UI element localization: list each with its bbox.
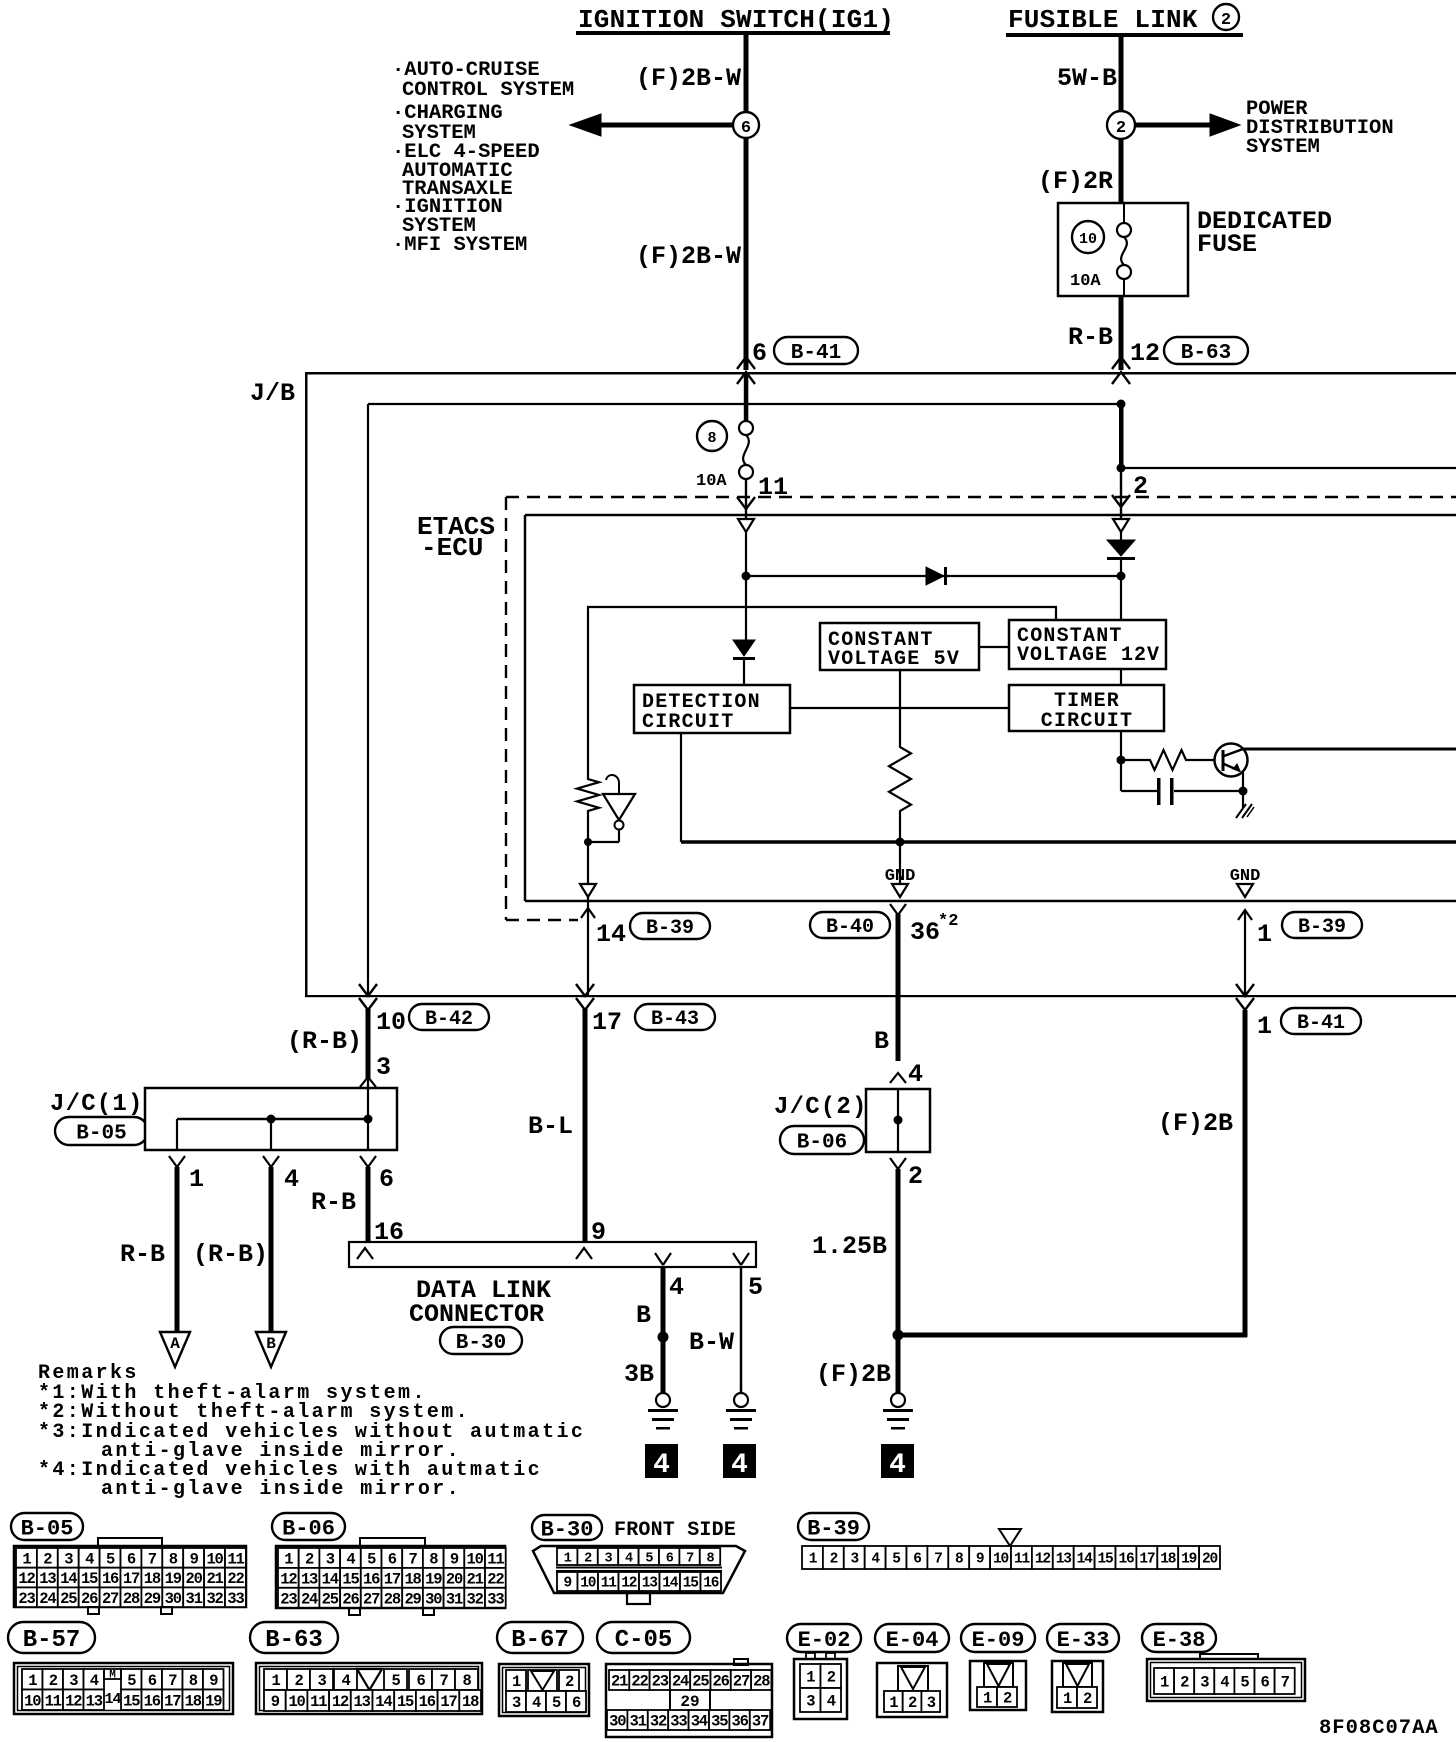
page ref 4 box2 <box>723 1444 756 1481</box>
svg-text:3: 3 <box>927 1694 936 1712</box>
svg-text:10: 10 <box>580 1576 596 1592</box>
J/C2 pin 2 exit <box>890 1158 923 1191</box>
ETACS-ECU dashed boundary <box>506 497 1456 920</box>
svg-text:B-57: B-57 <box>23 1627 81 1654</box>
svg-text:(R-B): (R-B) <box>287 1027 362 1056</box>
label 1 (B-39) <box>1257 920 1272 949</box>
svg-text:*2: *2 <box>938 912 958 931</box>
svg-text:7: 7 <box>408 1551 417 1569</box>
svg-text:22: 22 <box>487 1570 504 1588</box>
svg-text:5: 5 <box>367 1551 376 1569</box>
ground sym 1 <box>648 1393 678 1430</box>
J/C1 pin 6 exit <box>360 1156 394 1242</box>
pin 2 entry arrow <box>1112 472 1148 507</box>
label DATA LINK CONNECTOR <box>409 1276 551 1329</box>
svg-text:5: 5 <box>127 1672 136 1690</box>
crossing 17 (B-43) <box>576 984 594 1010</box>
svg-text:·MFI SYSTEM: ·MFI SYSTEM <box>392 234 527 257</box>
svg-text:14: 14 <box>375 1693 392 1711</box>
svg-text:4: 4 <box>85 1550 94 1568</box>
svg-text:10: 10 <box>206 1550 223 1568</box>
wire inside J/C1 <box>177 1088 368 1150</box>
svg-text:23: 23 <box>652 1673 669 1691</box>
svg-text:SYSTEM: SYSTEM <box>1246 136 1320 159</box>
wire: pin 1 B-39 exit <box>1244 910 1246 995</box>
svg-text:anti-glave inside mirror.: anti-glave inside mirror. <box>101 1478 461 1501</box>
svg-text:17: 17 <box>164 1692 181 1710</box>
wire: DLC pin4 to gnd <box>661 1267 666 1395</box>
svg-text:12: 12 <box>1035 1552 1051 1568</box>
svg-text:(F)2R: (F)2R <box>1038 167 1113 196</box>
svg-text:E-02: E-02 <box>798 1628 851 1653</box>
svg-text:20: 20 <box>1202 1552 1218 1568</box>
svg-text:24: 24 <box>39 1590 56 1608</box>
input triangle pin 11 <box>738 519 754 532</box>
node: J/C1 dots <box>267 1115 373 1124</box>
wire: R-B inside J/B vertical <box>367 404 369 995</box>
connector B-06 <box>272 1513 506 1615</box>
page ref 4 box1 <box>645 1444 678 1481</box>
svg-text:8: 8 <box>462 1672 471 1690</box>
svg-text:14: 14 <box>322 1570 339 1588</box>
svg-text:B-43: B-43 <box>651 1008 699 1031</box>
system list <box>392 59 574 257</box>
svg-text:5: 5 <box>645 1551 653 1566</box>
svg-text:CIRCUIT: CIRCUIT <box>642 711 734 734</box>
page ref 4 box3 <box>881 1444 914 1481</box>
svg-text:19: 19 <box>205 1692 222 1710</box>
svg-text:9: 9 <box>271 1693 280 1711</box>
svg-text:18: 18 <box>185 1692 202 1710</box>
svg-text:5: 5 <box>892 1552 900 1568</box>
node: junction at y468 <box>1117 464 1126 473</box>
wire: J/C2 down <box>896 1169 901 1335</box>
svg-text:5: 5 <box>552 1694 561 1712</box>
wire: R-B inside J/B horizontal <box>368 403 1121 405</box>
svg-text:3: 3 <box>1200 1674 1209 1692</box>
svg-text:1: 1 <box>22 1550 31 1568</box>
svg-text:29: 29 <box>144 1590 161 1608</box>
svg-text:2: 2 <box>1116 119 1126 138</box>
wire: DLC pin5 to gnd <box>740 1267 743 1393</box>
svg-text:10: 10 <box>24 1692 41 1710</box>
wire: R1 to junction <box>587 814 589 884</box>
output triangle pin 14 <box>580 884 596 897</box>
connector B-30 <box>532 1515 745 1604</box>
svg-text:33: 33 <box>487 1590 504 1608</box>
connector B-05 <box>11 1513 246 1614</box>
svg-text:16: 16 <box>144 1692 161 1710</box>
svg-text:3: 3 <box>605 1551 613 1566</box>
svg-text:10: 10 <box>1079 231 1097 248</box>
svg-text:B-41: B-41 <box>1297 1012 1345 1035</box>
svg-text:28: 28 <box>384 1590 401 1608</box>
svg-text:15: 15 <box>342 1570 359 1588</box>
crossing 1 (B-41) <box>1236 984 1254 1010</box>
svg-text:3: 3 <box>317 1672 326 1690</box>
arrow up pin14 <box>581 908 595 918</box>
connector label B-30 <box>440 1327 522 1354</box>
svg-text:1: 1 <box>512 1673 521 1691</box>
box: CONSTANT VOLTAGE 12V <box>1009 620 1166 669</box>
svg-text:4: 4 <box>889 1450 906 1481</box>
svg-text:8: 8 <box>189 1672 198 1690</box>
svg-text:6: 6 <box>127 1550 136 1568</box>
svg-text:B: B <box>266 1335 276 1353</box>
svg-text:8F08C07AA: 8F08C07AA <box>1319 1717 1439 1740</box>
connector E-38 <box>1142 1624 1305 1701</box>
wire: junction to 12V box <box>1120 576 1122 620</box>
svg-text:J/C(1): J/C(1) <box>50 1091 144 1118</box>
junction circle 6 <box>733 112 759 138</box>
svg-text:9: 9 <box>976 1552 984 1568</box>
svg-text:4: 4 <box>341 1672 350 1690</box>
svg-text:C-05: C-05 <box>615 1627 673 1654</box>
svg-text:7: 7 <box>439 1672 448 1690</box>
J/C1 pin 4 exit <box>263 1156 299 1332</box>
wire: cross link y576 <box>746 575 1121 577</box>
svg-text:20: 20 <box>186 1570 203 1588</box>
svg-text:6: 6 <box>913 1552 921 1568</box>
wire: 12V to timer <box>1120 669 1122 685</box>
junction circle 2 <box>1107 111 1135 139</box>
svg-text:3: 3 <box>512 1694 521 1712</box>
wire: R-B exit thick <box>366 1008 371 1078</box>
svg-text:1: 1 <box>806 1669 815 1687</box>
svg-text:B-63: B-63 <box>1181 342 1231 365</box>
svg-text:1: 1 <box>1063 1690 1072 1708</box>
data link connector box <box>349 1242 756 1267</box>
svg-text:8: 8 <box>429 1551 438 1569</box>
svg-text:3: 3 <box>376 1053 391 1082</box>
node: junction F2B <box>893 1330 904 1341</box>
connector B-67 <box>497 1622 589 1716</box>
svg-text:1: 1 <box>271 1672 280 1690</box>
svg-text:16: 16 <box>102 1570 119 1588</box>
svg-text:15: 15 <box>397 1693 414 1711</box>
svg-text:3: 3 <box>326 1551 335 1569</box>
svg-text:3B: 3B <box>624 1360 654 1389</box>
svg-text:3: 3 <box>806 1693 815 1711</box>
svg-text:12: 12 <box>332 1693 349 1711</box>
svg-text:24: 24 <box>301 1590 318 1608</box>
svg-text:10A: 10A <box>1070 272 1101 291</box>
wire: below dedicated fuse <box>1119 296 1124 370</box>
arrow to other systems <box>570 114 734 136</box>
svg-text:30: 30 <box>609 1713 626 1731</box>
pin 11 entry arrow <box>737 473 788 509</box>
wire: fusible feed down to junction 468 <box>1119 406 1124 468</box>
svg-text:13: 13 <box>354 1693 371 1711</box>
svg-text:17: 17 <box>440 1693 457 1711</box>
arrow up pin1 <box>1238 910 1252 920</box>
svg-text:CONNECTOR: CONNECTOR <box>409 1300 544 1329</box>
svg-text:2: 2 <box>49 1672 58 1690</box>
svg-text:27: 27 <box>102 1590 119 1608</box>
svg-text:21: 21 <box>467 1570 484 1588</box>
diode D1 (pin2 feed) <box>1107 532 1135 576</box>
label 1 (B-41) <box>1257 1012 1272 1041</box>
diode D2 (cross link) <box>926 567 947 585</box>
svg-text:26: 26 <box>342 1590 359 1608</box>
svg-text:8: 8 <box>707 1551 715 1566</box>
svg-text:17: 17 <box>384 1570 401 1588</box>
node: junction emitter <box>1239 787 1248 796</box>
node: junction left gnd <box>584 838 592 846</box>
svg-text:21: 21 <box>611 1673 628 1691</box>
svg-text:6: 6 <box>1260 1674 1269 1692</box>
svg-text:7: 7 <box>148 1550 157 1568</box>
wire: detection to timer link <box>790 707 1009 709</box>
svg-text:B-39: B-39 <box>646 917 694 940</box>
label DEDICATED FUSE <box>1197 207 1332 259</box>
fuse symbol 10A <box>1117 203 1131 296</box>
svg-text:E-38: E-38 <box>1153 1628 1206 1653</box>
svg-text:5W-B: 5W-B <box>1057 64 1117 93</box>
svg-text:6: 6 <box>388 1551 397 1569</box>
connector E-02 <box>787 1624 861 1719</box>
svg-text:2: 2 <box>1180 1674 1189 1692</box>
svg-text:27: 27 <box>363 1590 380 1608</box>
svg-text:2: 2 <box>1083 1690 1092 1708</box>
wire: ignition switch vertical <box>744 35 749 370</box>
connector crossing 6 (B-41) <box>737 339 767 384</box>
svg-text:4: 4 <box>827 1693 836 1711</box>
svg-text:1: 1 <box>889 1694 898 1712</box>
svg-text:15: 15 <box>123 1692 140 1710</box>
svg-text:15: 15 <box>81 1570 98 1588</box>
input triangle pin 2 <box>1113 519 1129 532</box>
svg-text:18: 18 <box>144 1570 161 1588</box>
svg-text:11: 11 <box>487 1551 504 1569</box>
svg-text:B-41: B-41 <box>791 342 841 365</box>
svg-text:4: 4 <box>908 1060 923 1089</box>
svg-text:2: 2 <box>1003 1690 1012 1708</box>
fuse id circle 10 <box>1072 221 1104 253</box>
wire: into J/C(1) <box>367 1078 369 1119</box>
svg-text:13: 13 <box>642 1576 658 1592</box>
svg-text:18: 18 <box>404 1570 421 1588</box>
label ETACS-ECU <box>417 512 495 563</box>
svg-text:12: 12 <box>1130 339 1160 368</box>
node: J/C2 dot <box>894 1116 903 1125</box>
svg-text:31: 31 <box>186 1590 203 1608</box>
svg-text:E-04: E-04 <box>886 1628 939 1653</box>
label POWER DISTRIBUTION SYSTEM <box>1246 98 1394 159</box>
svg-text:B-06: B-06 <box>797 1132 847 1155</box>
fuse id circle 8 <box>697 421 727 451</box>
svg-text:25: 25 <box>322 1590 339 1608</box>
box: DETECTION CIRCUIT <box>634 685 790 734</box>
svg-text:16: 16 <box>363 1570 380 1588</box>
svg-text:27: 27 <box>733 1673 750 1691</box>
svg-text:36: 36 <box>731 1713 748 1731</box>
DLC pin16 entry <box>357 1248 373 1259</box>
target triangle B <box>256 1332 286 1367</box>
svg-text:11: 11 <box>1014 1552 1031 1568</box>
node: junction R2 gnd bus <box>896 838 905 847</box>
pin 36 exit Y <box>890 904 898 915</box>
svg-text:E-33: E-33 <box>1057 1628 1110 1653</box>
svg-text:11: 11 <box>45 1692 62 1710</box>
wire: 5V to 12V link <box>979 646 1009 648</box>
svg-text:4: 4 <box>625 1551 633 1566</box>
svg-text:A: A <box>170 1335 180 1353</box>
connector E-09 <box>961 1624 1035 1710</box>
arrow to power distribution <box>1136 114 1240 136</box>
svg-text:1: 1 <box>1160 1674 1169 1692</box>
svg-text:32: 32 <box>650 1713 667 1731</box>
wire: timer to base node <box>1120 731 1122 760</box>
svg-text:14: 14 <box>1077 1552 1094 1568</box>
svg-text:12: 12 <box>65 1692 82 1710</box>
svg-text:B-L: B-L <box>528 1112 573 1141</box>
resistor R2 <box>889 744 911 814</box>
svg-text:B-05: B-05 <box>21 1516 74 1541</box>
wire: R2 to gnd bus <box>899 814 901 884</box>
diode D3 (to detection) <box>733 576 755 685</box>
svg-text:5: 5 <box>748 1273 763 1302</box>
svg-text:23: 23 <box>18 1590 35 1608</box>
capacitor C1 <box>1121 760 1243 805</box>
connector B-57 <box>8 1622 233 1714</box>
svg-text:36: 36 <box>910 918 940 947</box>
svg-text:8: 8 <box>955 1552 963 1568</box>
svg-text:CIRCUIT: CIRCUIT <box>1041 710 1133 733</box>
svg-text:31: 31 <box>446 1590 463 1608</box>
J/B junction block outline <box>305 372 1456 997</box>
svg-text:2: 2 <box>294 1672 303 1690</box>
svg-text:(R-B): (R-B) <box>193 1240 268 1269</box>
svg-text:14: 14 <box>662 1576 679 1592</box>
svg-text:30: 30 <box>425 1590 442 1608</box>
svg-text:11: 11 <box>601 1576 618 1592</box>
node: junction at fusible wire / R-B <box>1117 400 1126 409</box>
svg-text:29: 29 <box>680 1693 699 1711</box>
svg-text:6: 6 <box>572 1694 581 1712</box>
svg-text:19: 19 <box>425 1570 442 1588</box>
svg-text:28: 28 <box>753 1673 770 1691</box>
svg-text:B-39: B-39 <box>1298 916 1346 939</box>
svg-text:37: 37 <box>752 1713 769 1731</box>
svg-text:R-B: R-B <box>1068 323 1113 352</box>
box: TIMER CIRCUIT <box>1009 685 1164 733</box>
connector label B-05 at J/C1 <box>55 1117 148 1145</box>
svg-text:9: 9 <box>450 1551 459 1569</box>
svg-text:(F)2B-W: (F)2B-W <box>636 64 741 93</box>
connector label B-63 <box>1164 337 1248 364</box>
svg-text:15: 15 <box>683 1576 699 1592</box>
svg-text:9: 9 <box>591 1218 606 1247</box>
svg-text:18: 18 <box>1160 1552 1176 1568</box>
svg-text:B-42: B-42 <box>425 1008 473 1031</box>
svg-text:17: 17 <box>592 1008 622 1037</box>
svg-text:2: 2 <box>43 1550 52 1568</box>
svg-text:10A: 10A <box>696 472 727 491</box>
node: junction left y576 <box>742 572 751 581</box>
svg-text:12: 12 <box>280 1570 297 1588</box>
svg-text:19: 19 <box>1181 1552 1197 1568</box>
junction connector J/C(2) box <box>866 1089 930 1152</box>
wire: ignition feed inside J/B <box>744 374 749 422</box>
svg-text:R-B: R-B <box>120 1240 165 1269</box>
svg-text:21: 21 <box>206 1570 223 1588</box>
connector B-63 <box>250 1622 482 1714</box>
svg-text:(F)2B-W: (F)2B-W <box>636 242 741 271</box>
connector E-33 <box>1047 1624 1119 1712</box>
connector label B-41 <box>774 337 858 364</box>
svg-text:10: 10 <box>376 1008 406 1037</box>
svg-text:3: 3 <box>64 1550 73 1568</box>
svg-text:7: 7 <box>686 1551 694 1566</box>
DLC pin5 exit <box>733 1253 741 1265</box>
svg-text:17: 17 <box>1139 1552 1155 1568</box>
remarks text <box>38 1362 585 1501</box>
svg-text:J/B: J/B <box>250 379 295 408</box>
svg-text:10: 10 <box>993 1552 1009 1568</box>
svg-text:3: 3 <box>69 1672 78 1690</box>
svg-text:4: 4 <box>532 1694 541 1712</box>
svg-text:13: 13 <box>301 1570 318 1588</box>
resistor R3 <box>1121 750 1222 770</box>
svg-text:25: 25 <box>692 1673 709 1691</box>
svg-text:1: 1 <box>28 1672 37 1690</box>
svg-text:4: 4 <box>1220 1674 1229 1692</box>
svg-text:9: 9 <box>563 1576 571 1592</box>
svg-text:3: 3 <box>850 1552 858 1568</box>
svg-text:B: B <box>636 1301 651 1330</box>
surge arrester <box>588 775 635 842</box>
node: junction right y576 <box>1117 572 1126 581</box>
svg-text:VOLTAGE 12V: VOLTAGE 12V <box>1017 644 1160 667</box>
svg-text:2: 2 <box>908 1162 923 1191</box>
svg-text:6: 6 <box>752 339 767 368</box>
box: CONSTANT VOLTAGE 5V <box>820 623 979 671</box>
svg-text:5: 5 <box>1240 1674 1249 1692</box>
svg-text:6: 6 <box>148 1672 157 1690</box>
svg-text:11: 11 <box>227 1550 244 1568</box>
svg-text:E-09: E-09 <box>972 1628 1025 1653</box>
svg-text:33: 33 <box>227 1590 244 1608</box>
wire: down to ETACS pin 2 <box>1120 468 1122 519</box>
svg-text:2: 2 <box>908 1694 917 1712</box>
svg-text:16: 16 <box>1118 1552 1134 1568</box>
svg-text:R-B: R-B <box>311 1188 356 1217</box>
svg-text:31: 31 <box>629 1713 646 1731</box>
svg-text:25: 25 <box>60 1590 77 1608</box>
svg-text:4: 4 <box>346 1551 355 1569</box>
svg-text:VOLTAGE 5V: VOLTAGE 5V <box>828 648 960 671</box>
DLC pin4 exit <box>655 1253 663 1265</box>
svg-text:B-63: B-63 <box>265 1627 323 1654</box>
svg-text:CONTROL SYSTEM: CONTROL SYSTEM <box>402 79 574 102</box>
svg-text:34: 34 <box>691 1713 708 1731</box>
wire: fuse to ETACS pin 11 <box>745 479 747 519</box>
svg-text:B-40: B-40 <box>826 916 874 939</box>
transistor Q1 <box>1215 744 1456 792</box>
svg-text:28: 28 <box>123 1590 140 1608</box>
svg-text:13: 13 <box>86 1692 103 1710</box>
svg-text:2: 2 <box>584 1551 592 1566</box>
gnd triangle right <box>1237 884 1253 897</box>
svg-text:J/C(2): J/C(2) <box>774 1094 868 1121</box>
svg-text:(F)2B: (F)2B <box>1158 1109 1233 1138</box>
svg-text:7: 7 <box>168 1672 177 1690</box>
junction connector J/C(1) box <box>145 1088 397 1150</box>
connector C-05 <box>597 1622 772 1737</box>
ground sym 3 <box>883 1393 913 1430</box>
svg-text:12: 12 <box>18 1570 35 1588</box>
